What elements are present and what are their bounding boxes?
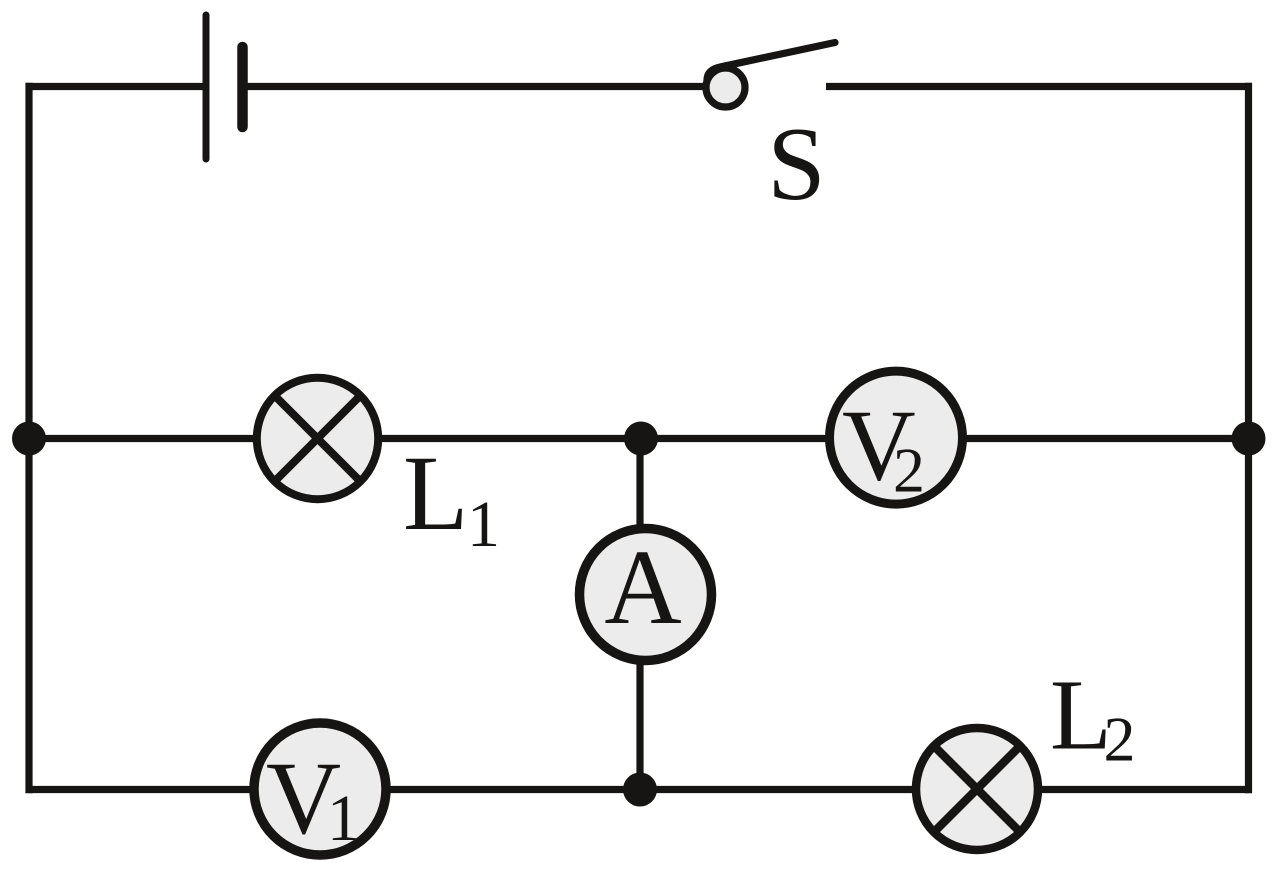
node right middle xyxy=(1232,422,1266,456)
svg-text:L: L xyxy=(1050,659,1112,771)
wire middle rail right segment xyxy=(964,435,1249,442)
svg-text:2: 2 xyxy=(893,435,925,506)
wire vertical branch lower (ammeter to bottom node) xyxy=(636,662,643,790)
switch S lever xyxy=(707,43,835,82)
wire bottom rail right segment xyxy=(1039,786,1249,793)
wire left vertical rail xyxy=(25,83,32,794)
wire right vertical rail xyxy=(1245,83,1252,794)
voltmeter V2 circle xyxy=(830,371,963,504)
lamp L2 cross leg NW-SE xyxy=(934,746,1020,832)
svg-text:L: L xyxy=(403,435,468,553)
battery long plate (positive) xyxy=(203,15,210,159)
svg-text:1: 1 xyxy=(467,488,500,561)
battery short plate (negative) xyxy=(237,47,248,127)
ammeter A circle xyxy=(580,529,712,661)
svg-text:S: S xyxy=(767,105,825,222)
lamp L2 cross leg NE-SW xyxy=(934,746,1020,832)
switch S pivot circle xyxy=(706,68,745,107)
lamp L1 circle xyxy=(257,378,378,499)
wire bottom rail center segment xyxy=(387,786,915,793)
wire top-left horizontal xyxy=(26,83,207,90)
svg-text:A: A xyxy=(604,529,681,647)
wire middle rail center segment xyxy=(379,435,828,442)
node left middle xyxy=(12,422,46,456)
node center middle xyxy=(624,422,658,456)
svg-text:1: 1 xyxy=(327,782,360,855)
lamp L1 cross leg NW-SE xyxy=(275,396,361,482)
lamp L1 cross leg NE-SW xyxy=(275,396,361,482)
wire top-right horizontal (switch to right corner) xyxy=(826,83,1252,90)
voltmeter V1 circle xyxy=(254,723,386,855)
wire vertical branch upper (node to ammeter) xyxy=(636,439,643,528)
wire middle rail left segment xyxy=(29,435,256,442)
wire bottom rail left segment xyxy=(29,786,253,793)
wire battery to switch xyxy=(243,83,707,90)
lamp L2 circle xyxy=(916,728,1038,850)
node bottom center xyxy=(623,773,657,807)
svg-text:2: 2 xyxy=(1104,704,1136,775)
